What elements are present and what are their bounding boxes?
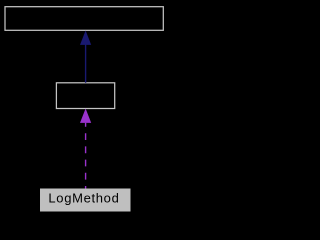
- inheritance graph (doxygen-style): [0, 0, 171, 219]
- node: LogMethod (current class, filled): [40, 189, 131, 212]
- wire: inheritance edge stem (blue solid): [85, 44, 87, 83]
- wire: template/usage edge stem (purple dashed): [85, 123, 87, 189]
- node: base class (top box): [5, 7, 163, 31]
- node B: usage arrowhead: [80, 109, 91, 123]
- svg-text:LogMethod: LogMethod: [48, 190, 118, 205]
- node A: inheritance arrowhead: [80, 31, 91, 45]
- node: intermediate class (middle box): [56, 83, 114, 109]
